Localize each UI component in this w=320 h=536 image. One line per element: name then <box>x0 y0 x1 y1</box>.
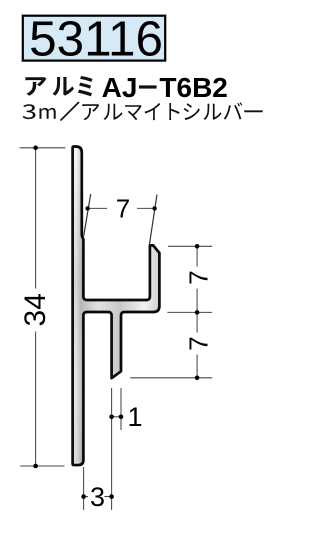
dim 7 top dot left <box>85 206 89 210</box>
plate vertical shading overlay <box>74 149 82 463</box>
part number box <box>23 16 165 61</box>
right dim line segment 3 <box>196 355 198 378</box>
text katakana A (alumite) <box>82 104 99 120</box>
svg-text:34: 34 <box>19 293 52 326</box>
text katakana long vowel mark <box>244 110 262 112</box>
dim 3 extension line left <box>83 467 85 510</box>
text katakana RU (silver) <box>204 104 222 120</box>
dim 1 extension line right <box>120 388 122 430</box>
dim 34 line lower segment <box>35 332 37 467</box>
dim 34 line upper segment <box>35 148 37 289</box>
dim 3 line left stub <box>84 496 89 498</box>
text digit 3 (3m) <box>23 104 36 119</box>
text katakana MI (arumi) <box>78 76 93 96</box>
dim 1 line <box>110 416 122 418</box>
dim 7 top dot right <box>152 206 156 210</box>
text katakana MA (alumite) <box>125 105 142 120</box>
text katakana RU (arumi) <box>53 77 75 96</box>
dim 7 top line left segment <box>88 207 107 209</box>
svg-text:53116: 53116 <box>29 13 163 67</box>
dim 7 top oblique tick left <box>84 194 91 237</box>
svg-text:3: 3 <box>90 482 105 512</box>
svg-text:1: 1 <box>127 402 142 432</box>
dim 1 extension line left (leg left face, continues to dim 3) <box>111 388 113 510</box>
dim 3 dot right <box>109 494 114 499</box>
dim 34 dot top <box>33 146 38 151</box>
text katakana A (arumi) <box>25 77 46 96</box>
dim 34 extension line bottom <box>20 465 64 467</box>
text letter m (3m) <box>40 108 56 119</box>
text katakana I (alumite) <box>145 103 161 120</box>
svg-text:7: 7 <box>184 336 214 351</box>
svg-text:T6B2: T6B2 <box>159 72 227 103</box>
dim 3 line right stub <box>104 496 112 498</box>
dim 34 dot bottom <box>33 464 38 469</box>
svg-text:7: 7 <box>116 194 130 224</box>
dim 7 top line right segment <box>137 207 155 209</box>
right dim dot leg bottom <box>195 376 200 381</box>
dim 3 dot left <box>81 494 86 499</box>
right dim dot arm bottom <box>195 310 200 315</box>
svg-text:7: 7 <box>184 270 214 285</box>
text katakana BA (silver) <box>224 102 243 119</box>
text katakana TO (alumite) <box>169 103 179 120</box>
dim 7 top oblique tick right <box>150 195 158 245</box>
right dims extension line arm bottom <box>167 311 212 313</box>
dim 1 dot right <box>119 415 124 420</box>
text full-width dash <box>139 85 157 88</box>
text katakana RU (alumite) <box>104 104 123 120</box>
right dims extension line leg bottom <box>130 377 212 379</box>
aluminium profile cross-section <box>73 147 160 466</box>
text katakana SHI (silver) <box>184 103 200 120</box>
dim 1 dot left <box>109 415 114 420</box>
svg-text:AJ: AJ <box>102 72 138 103</box>
right dim dot flange top <box>195 244 200 249</box>
dim 34 extension line top <box>20 147 66 149</box>
right dims extension line flange top <box>168 245 212 247</box>
right dim line segment 1 <box>196 246 198 266</box>
right dim line segment 2 <box>196 289 198 333</box>
slash in 3m/almite-silver <box>61 102 80 121</box>
